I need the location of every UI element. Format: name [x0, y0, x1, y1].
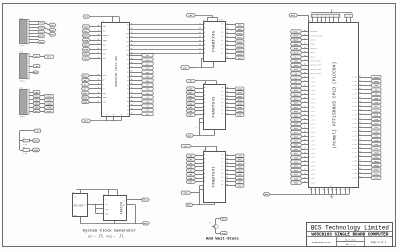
- svg-text:Q1: Q1: [209, 222, 211, 224]
- svg-text:I-I/O: I-I/O: [310, 145, 314, 147]
- svg-text:RAMB: RAMB: [374, 80, 380, 83]
- svg-text:BA12: BA12: [237, 40, 243, 43]
- svg-text:System Clock Generator: System Clock Generator: [83, 228, 137, 233]
- svg-text:I-I/O: I-I/O: [310, 136, 314, 138]
- svg-text:RP1 10K: RP1 10K: [317, 20, 323, 22]
- svg-text:MX: MX: [103, 88, 105, 90]
- svg-text:74ABT245: 74ABT245: [212, 30, 216, 53]
- svg-text:Inp.TDI/IO.GC1: Inp.TDI/IO.GC1: [310, 35, 322, 37]
- svg-text:Vcc: Vcc: [74, 197, 77, 199]
- svg-text:IO/TB: IO/TB: [310, 52, 314, 54]
- svg-text:CN4: CN4: [20, 87, 23, 89]
- svg-text:I-I/O: I-I/O: [310, 103, 314, 105]
- svg-text:XBD5: XBD5: [237, 106, 243, 109]
- svg-text:I-I/O: I-I/O: [352, 156, 356, 158]
- svg-text:IRQB: IRQB: [103, 40, 107, 42]
- svg-text:BA14: BA14: [293, 51, 299, 54]
- svg-text:VPB: VPB: [103, 26, 106, 28]
- svg-text:D: D: [105, 199, 106, 201]
- svg-text:D1: D1: [127, 93, 129, 95]
- svg-text:I-I/O: I-I/O: [352, 177, 356, 179]
- svg-text:IO/GS: IO/GS: [310, 44, 314, 46]
- svg-text:I-I/O: I-I/O: [310, 174, 314, 176]
- svg-text:IO/TB3 L(TxD): IO/TB3 L(TxD): [310, 69, 321, 71]
- svg-text:(Atmel) ATF1508AS CPLD (PLCC84: (Atmel) ATF1508AS CPLD (PLCC84): [333, 62, 338, 149]
- svg-text:BA11: BA11: [237, 36, 243, 39]
- svg-text:BA15: BA15: [293, 39, 299, 42]
- svg-text:I-I/O: I-I/O: [310, 170, 314, 172]
- svg-text:BA10: BA10: [237, 32, 243, 35]
- svg-text:D0: D0: [127, 89, 129, 91]
- svg-text:I-I/O: I-I/O: [310, 115, 314, 117]
- svg-text:CN3: CN3: [20, 51, 23, 53]
- svg-text:BA13: BA13: [237, 44, 243, 47]
- svg-text:IRQ1: IRQ1: [374, 156, 380, 159]
- svg-text:I-I/O: I-I/O: [352, 173, 356, 175]
- svg-text:I-I/O: I-I/O: [310, 149, 314, 151]
- svg-text:I-I/O: I-I/O: [352, 98, 356, 100]
- svg-text:PHI2: PHI2: [83, 74, 89, 77]
- svg-text:+5V: +5V: [105, 114, 108, 116]
- svg-text:D6: D6: [127, 114, 129, 116]
- svg-text:Inp.GS.2: Inp.GS.2: [310, 48, 317, 50]
- svg-text:U4: U4: [103, 194, 105, 196]
- svg-text:SD3B: SD3B: [47, 102, 53, 105]
- svg-text:PHI2: PHI2: [293, 30, 299, 33]
- svg-text:GNDB: GNDB: [47, 110, 53, 113]
- svg-text:ABORTB: ABORTB: [83, 34, 89, 37]
- svg-text:I-I/O: I-I/O: [352, 140, 356, 142]
- svg-text:TXD2: TXD2: [50, 24, 55, 27]
- svg-text:Rev 2.0: Rev 2.0: [346, 243, 355, 246]
- svg-text:RESB: RESB: [293, 35, 299, 38]
- svg-text:I-I/O: I-I/O: [352, 161, 356, 163]
- svg-text:IRQ0: IRQ0: [374, 151, 380, 154]
- svg-text:I-I/O: I-I/O: [352, 85, 356, 87]
- svg-text:I-I/O: I-I/O: [352, 119, 356, 121]
- svg-text:IO/TB: IO/TB: [310, 56, 314, 58]
- svg-text:D2: D2: [127, 97, 129, 99]
- svg-text:GND: GND: [330, 186, 333, 188]
- svg-text:3.3K: 3.3K: [23, 144, 27, 146]
- svg-text:BE: BE: [103, 80, 105, 82]
- svg-text:3.3K: 3.3K: [23, 153, 27, 155]
- svg-text:I-I/O: I-I/O: [352, 89, 356, 91]
- svg-text:RESB: RESB: [103, 97, 107, 99]
- svg-text:I-I/O: I-I/O: [352, 123, 356, 125]
- svg-text:PHI2 =: PHI2 =: [107, 236, 116, 239]
- svg-text:STD-OSC: STD-OSC: [74, 205, 84, 208]
- svg-text:I-I/O: I-I/O: [310, 98, 314, 100]
- svg-text:RP2: RP2: [346, 20, 349, 22]
- svg-text:NMIB: NMIB: [103, 49, 107, 51]
- svg-text:30-3-2014: 30-3-2014: [345, 238, 357, 241]
- svg-text:CLK: CLK: [105, 204, 108, 206]
- svg-text:U7: U7: [309, 21, 311, 23]
- svg-text:RESB: RESB: [33, 139, 39, 142]
- svg-text:Q: Q: [124, 200, 125, 202]
- svg-text:+5V: +5V: [330, 9, 333, 11]
- svg-text:I-I/O: I-I/O: [310, 77, 314, 79]
- svg-text:D5: D5: [127, 110, 129, 112]
- svg-text:IRQB: IRQB: [33, 149, 39, 152]
- svg-text:QB: QB: [123, 205, 125, 207]
- svg-text:XBD7: XBD7: [237, 114, 243, 117]
- svg-text:PHI2: PHI2: [142, 199, 148, 202]
- svg-text:IRQB: IRQB: [83, 39, 89, 42]
- svg-text:XBD2: XBD2: [237, 95, 243, 98]
- svg-text:RXD2: RXD2: [50, 29, 55, 32]
- svg-text:XBD6: XBD6: [237, 110, 243, 113]
- svg-text:BA15: BA15: [237, 53, 243, 56]
- svg-text:IRQ3: IRQ3: [374, 164, 380, 167]
- svg-text:E: E: [103, 84, 104, 86]
- svg-text:BA14: BA14: [237, 49, 243, 52]
- svg-text:SD1B: SD1B: [47, 95, 53, 98]
- svg-text:bigdumbdinosaur: bigdumbdinosaur: [312, 241, 332, 244]
- svg-text:I-I/O: I-I/O: [310, 157, 314, 159]
- svg-text:I-I/O: I-I/O: [310, 111, 314, 113]
- svg-text:+5V: +5V: [120, 114, 123, 116]
- svg-text:I-I/O: I-I/O: [310, 153, 314, 155]
- svg-text:IO/TB L(TxD): IO/TB L(TxD): [310, 61, 320, 63]
- svg-text:XBD3: XBD3: [237, 99, 243, 102]
- svg-text:I-I/O: I-I/O: [352, 135, 356, 137]
- svg-text:CLK4: CLK4: [374, 177, 380, 180]
- svg-text:I-I/O: I-I/O: [352, 77, 356, 79]
- svg-text:I-I/O: I-I/O: [310, 161, 314, 163]
- svg-text:I-I/O: I-I/O: [352, 165, 356, 167]
- svg-text:IRQ2: IRQ2: [374, 160, 380, 163]
- svg-text:IO/OE2: IO/OE2: [310, 40, 315, 42]
- svg-text:W65C816S SINGLE BOARD COMPUTER: W65C816S SINGLE BOARD COMPUTER: [311, 233, 388, 238]
- svg-text:SCKB: SCKB: [47, 106, 53, 109]
- svg-text:HDR20: HDR20: [20, 81, 25, 83]
- svg-text:HDR12: HDR12: [20, 116, 25, 118]
- svg-text:GND: GND: [74, 215, 77, 217]
- svg-text:SD2B: SD2B: [47, 99, 53, 102]
- svg-text:DB25F: DB25F: [20, 45, 25, 47]
- svg-text:I-I/O: I-I/O: [310, 140, 314, 142]
- svg-text:U3: U3: [72, 192, 74, 194]
- svg-text:I-I/O: I-I/O: [310, 94, 314, 96]
- svg-text:XBD1: XBD1: [237, 91, 243, 94]
- svg-text:XBD4: XBD4: [237, 102, 243, 105]
- svg-text:+5V: +5V: [112, 114, 115, 116]
- svg-text:OUT =: OUT =: [88, 236, 96, 239]
- svg-text:MLB: MLB: [103, 44, 106, 46]
- svg-text:NMIB: NMIB: [83, 48, 89, 51]
- svg-text:I-I/O: I-I/O: [352, 81, 356, 83]
- svg-text:74ABT541: 74ABT541: [212, 96, 216, 119]
- svg-text:RSTB: RSTB: [105, 213, 109, 215]
- svg-text:ROMB: ROMB: [374, 76, 380, 79]
- svg-text:I-I/O: I-I/O: [352, 114, 356, 116]
- svg-text:CLK2: CLK2: [374, 172, 380, 175]
- svg-text:I-I/O: I-I/O: [310, 90, 314, 92]
- svg-text:I-I/O: I-I/O: [352, 144, 356, 146]
- svg-text:I-I/O: I-I/O: [310, 182, 314, 184]
- svg-text:IO/GCLR2: IO/GCLR2: [310, 31, 317, 33]
- svg-text:Page 2 of 6: Page 2 of 6: [371, 241, 387, 244]
- svg-text:I-I/O: I-I/O: [310, 119, 314, 121]
- svg-text:SETB: SETB: [105, 209, 109, 211]
- svg-text:I-I/O: I-I/O: [310, 82, 314, 84]
- svg-text:RESB: RESB: [83, 96, 89, 99]
- svg-text:R2: R2: [23, 147, 25, 149]
- svg-text:I-I/O: I-I/O: [310, 178, 314, 180]
- svg-text:I-I/O: I-I/O: [352, 106, 356, 108]
- svg-text:R1: R1: [23, 138, 25, 140]
- svg-text:74AC74: 74AC74: [121, 202, 125, 215]
- svg-text:U2: U2: [203, 20, 205, 22]
- svg-text:W65C816S (PLCC-44): W65C816S (PLCC-44): [114, 55, 118, 86]
- svg-text:I-I/O: I-I/O: [352, 102, 356, 104]
- svg-text:CN2: CN2: [20, 18, 23, 20]
- svg-text:NMI0: NMI0: [374, 168, 380, 171]
- svg-text:IO/TCK L(TxD): IO/TCK L(TxD): [310, 65, 321, 67]
- svg-text:I-I/O: I-I/O: [352, 127, 356, 129]
- svg-text:I-I/O: I-I/O: [352, 110, 356, 112]
- svg-text:I-I/O: I-I/O: [310, 132, 314, 134]
- svg-text:D3: D3: [127, 101, 129, 103]
- svg-text:I-I/O: I-I/O: [352, 93, 356, 95]
- svg-text:I-I/O: I-I/O: [352, 169, 356, 171]
- svg-text:IO/TMS L(TxD): IO/TMS L(TxD): [310, 73, 321, 75]
- svg-text:OUT: OUT: [84, 204, 87, 206]
- svg-text:I-I/O: I-I/O: [352, 152, 356, 154]
- svg-text:74ABT541: 74ABT541: [212, 165, 216, 188]
- svg-text:I-I/O: I-I/O: [352, 148, 356, 150]
- svg-text:PHI2: PHI2: [103, 75, 107, 77]
- svg-text:SOB: SOB: [103, 102, 106, 104]
- svg-text:BCS Technology Limited: BCS Technology Limited: [311, 225, 389, 232]
- svg-text:XBD0: XBD0: [237, 87, 243, 90]
- svg-text:D4: D4: [127, 105, 129, 107]
- svg-text:I-I/O: I-I/O: [310, 86, 314, 88]
- svg-text:I-I/O: I-I/O: [310, 166, 314, 168]
- svg-text:CTS2: CTS2: [50, 33, 55, 36]
- svg-text:RDY: RDY: [103, 31, 106, 33]
- svg-text:I-I/O: I-I/O: [352, 131, 356, 133]
- svg-text:I-I/O: I-I/O: [310, 124, 314, 126]
- svg-text:U1: U1: [102, 20, 104, 22]
- svg-text:Add Wait-State: Add Wait-State: [206, 236, 239, 240]
- svg-text:I-I/O: I-I/O: [310, 107, 314, 109]
- svg-text:RWB: RWB: [103, 93, 106, 95]
- svg-text:I-I/O: I-I/O: [310, 128, 314, 130]
